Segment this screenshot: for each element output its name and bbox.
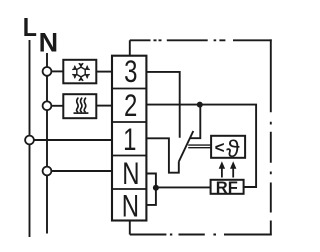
thermostat box <box>211 136 245 158</box>
wire contact hook from junction A <box>190 105 201 139</box>
terminal circle on N (to cooling) <box>43 67 52 76</box>
junction B dot <box>153 185 159 191</box>
terminal block divider 3/2 <box>112 88 146 90</box>
svg-text:2: 2 <box>124 88 137 123</box>
wire circle1 to cooling box <box>52 70 64 72</box>
arrow RF to thermostat 1 <box>219 161 225 177</box>
wire L line <box>29 40 31 237</box>
wire cooling box to terminal 3 <box>96 71 112 73</box>
terminal circle on N (to heating) <box>43 101 52 110</box>
switch blade S1 <box>179 131 194 162</box>
wire terminal 2 to RF right side <box>146 105 256 187</box>
wire N circle4 to terminal N1 <box>52 170 113 172</box>
terminal block divider 2/1 <box>112 121 146 123</box>
heating load box <box>63 94 96 118</box>
heating element icon <box>74 98 89 113</box>
terminal circle on N (to terminal N1) <box>43 167 52 176</box>
svg-text:3: 3 <box>124 54 137 89</box>
wire circle2 to heating box <box>52 105 64 107</box>
wire terminal 1 to switch pivot <box>146 138 178 172</box>
snowflake icon <box>73 64 89 81</box>
svg-text:<: < <box>215 138 225 157</box>
svg-text:N: N <box>122 156 139 191</box>
wire terminal 3 to switch upper contact <box>146 72 179 138</box>
enclosure dash-dot top border <box>130 39 272 41</box>
enclosure dash-dot right border <box>270 39 272 235</box>
receiver RF box <box>211 180 244 194</box>
cooling load box <box>63 60 96 84</box>
wire N line <box>46 53 48 234</box>
svg-text:1: 1 <box>123 122 136 157</box>
terminal circle on L (to terminal 1) <box>25 136 34 145</box>
svg-text:N: N <box>122 188 139 223</box>
terminal block divider 1/N <box>112 155 146 157</box>
wire terminal N1 to junction B <box>146 174 156 188</box>
mechanical link double line <box>188 144 211 146</box>
wire L circle3 to terminal 1 <box>34 139 112 141</box>
wire junction B to RF left side <box>156 186 211 188</box>
terminal block outline <box>112 56 146 221</box>
wire terminal N2 to junction B <box>146 187 156 205</box>
arrow RF to thermostat 2 <box>230 161 236 177</box>
junction A dot <box>197 102 203 108</box>
enclosure riser bottom <box>129 221 131 235</box>
svg-text:RF: RF <box>216 179 238 197</box>
wire heating box to terminal 2 <box>96 105 112 107</box>
enclosure riser top <box>129 40 131 55</box>
svg-text:ϑ: ϑ <box>226 136 240 163</box>
svg-text:N: N <box>39 28 59 58</box>
terminal block divider N/N <box>112 188 146 190</box>
svg-text:L: L <box>23 14 37 42</box>
enclosure dash-dot bottom border <box>130 234 272 236</box>
